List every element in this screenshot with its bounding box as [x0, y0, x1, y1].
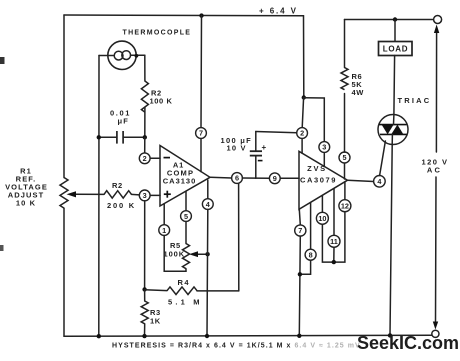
- node junction cap left: [97, 135, 101, 139]
- wire pin7 down to ground rail: [299, 236, 300, 336]
- wire node to pin2 circle: [144, 137, 146, 153]
- zero-voltage switch U2 ZVS CA3079: [299, 151, 348, 209]
- pin 1 of U1: [159, 204, 170, 236]
- wire triac gate to pin4 of U2: [380, 141, 386, 176]
- triac Q1: [378, 115, 408, 145]
- svg-text:10 K: 10 K: [16, 199, 36, 208]
- svg-text:5: 5: [184, 212, 188, 221]
- wire AC source arrow up: [435, 30, 437, 152]
- svg-text:10: 10: [318, 214, 326, 223]
- wire triac main terminal down to ground rail: [390, 144, 392, 335]
- pin 7 of U2: [295, 209, 306, 236]
- svg-text:SeekIC.com: SeekIC.com: [357, 333, 459, 353]
- node junction triac at ground rail: [388, 333, 392, 337]
- node junction cap right: [143, 135, 147, 139]
- svg-text:AC: AC: [427, 166, 442, 175]
- wire pin4 of U1 down to ground rail: [206, 210, 209, 337]
- svg-text:THERMOCOPLE: THERMOCOPLE: [123, 30, 192, 37]
- node junction R3 at ground rail: [142, 334, 146, 338]
- svg-text:3: 3: [143, 191, 147, 200]
- node junction pin11 bus: [332, 260, 336, 264]
- node junction pin7 line at ground rail: [297, 334, 301, 338]
- svg-text:7: 7: [298, 226, 302, 235]
- wire cap top to pin2 of U2: [256, 132, 297, 133]
- op-amp U1 A1 COMP CA3130: [160, 146, 210, 207]
- svg-text:9: 9: [273, 174, 277, 183]
- svg-text:R4: R4: [178, 278, 191, 287]
- svg-text:7: 7: [199, 129, 203, 138]
- pin 4 of U1: [202, 180, 213, 210]
- svg-text:1K: 1K: [150, 317, 161, 326]
- capacitor C1 0.01uF: [99, 109, 145, 144]
- node junction LOAD branch: [393, 17, 397, 21]
- pin 6 of U1 output: [210, 173, 242, 184]
- svg-text:11: 11: [330, 237, 338, 246]
- wire pin6 to pin9: [242, 177, 269, 179]
- wire A1 pin7 riser: [200, 16, 203, 128]
- node junction wiper on pin4 line: [205, 252, 209, 256]
- svg-text:R2: R2: [112, 181, 123, 190]
- svg-text:12: 12: [341, 201, 349, 210]
- svg-text:+ 6.4 V: + 6.4 V: [259, 7, 298, 16]
- svg-text:TRIAC: TRIAC: [398, 96, 432, 105]
- terminal 120V AC top: [434, 16, 442, 24]
- svg-text:μF: μF: [118, 117, 130, 126]
- wire pin11 to bus: [333, 247, 335, 262]
- scan artifact left edge: [0, 57, 5, 64]
- svg-text:1: 1: [162, 226, 166, 235]
- wire thermocouple right lead down to R2: [144, 55, 146, 81]
- node junction +6.4V branch: [302, 95, 306, 99]
- resistor R3 1K: [141, 290, 161, 336]
- wire R5 bottom to pin1 line: [164, 236, 186, 272]
- wire R5 wiper from pin4 line: [196, 253, 208, 255]
- pin 9 of U2 input: [269, 173, 299, 184]
- pin 7 of U1: [196, 128, 207, 172]
- resistor R1 potentiometer 10K: [60, 178, 68, 209]
- wire R2 bottom to node: [144, 107, 146, 137]
- pin 12 of U2: [339, 182, 351, 212]
- svg-text:CA3079: CA3079: [300, 176, 337, 185]
- svg-text:100K: 100K: [164, 250, 186, 259]
- wire pins 10,11,12 common bus: [322, 212, 345, 262]
- svg-text:2: 2: [143, 154, 147, 163]
- wire branch to pin 3 of U2: [304, 98, 325, 142]
- svg-text:5: 5: [342, 153, 346, 162]
- pin 3 of U1: [139, 190, 160, 201]
- node junction thermocouple lead at ground rail: [97, 334, 101, 338]
- wire top rail left (+6.4V rail): [64, 14, 304, 17]
- wire AC source arrow down: [435, 177, 438, 324]
- svg-text:HYSTERESIS = R3/R4 x 6.4 V = 1: HYSTERESIS = R3/R4 x 6.4 V = 1K/5.1 M x …: [112, 343, 361, 350]
- svg-text:3: 3: [322, 143, 326, 152]
- wire top rail right section: [345, 19, 434, 21]
- svg-text:100 K: 100 K: [150, 97, 173, 106]
- pin 10 of U2: [316, 195, 328, 224]
- pin 11 of U2: [328, 189, 340, 248]
- wire R1 wiper arrow: [75, 193, 104, 195]
- node junction pin8/pin7: [298, 272, 302, 276]
- wire R4 up to output node pin6: [238, 183, 240, 291]
- pin 2 of U2: [297, 128, 308, 154]
- wire riser +6.4V to ZVS pins 2,3: [303, 16, 305, 98]
- wire load to triac: [393, 56, 396, 115]
- pin 8 of U2: [305, 203, 316, 261]
- svg-text:200 K: 200 K: [107, 201, 136, 210]
- resistor R2 200K: [104, 191, 132, 198]
- capacitor C2 100uF 10V: [221, 132, 267, 179]
- thermocouple TC1: [99, 41, 145, 69]
- resistor R2 100K: [141, 81, 148, 112]
- wire left frame vertical: [63, 15, 65, 178]
- svg-text:5.1 M: 5.1 M: [168, 298, 203, 307]
- pin 5 of U1: [181, 191, 192, 221]
- terminal 120V AC bottom: [432, 330, 439, 337]
- svg-text:8: 8: [309, 250, 313, 259]
- wire bottom ground rail: [64, 335, 432, 336]
- svg-text:+: +: [262, 143, 267, 152]
- load box: [379, 20, 413, 56]
- node junction R4 branch: [142, 287, 146, 291]
- wire pin8 joins pin7 line: [300, 260, 311, 274]
- svg-text:10 V: 10 V: [227, 144, 247, 153]
- wire branch to pin 2 of U2: [302, 98, 303, 128]
- svg-text:2: 2: [300, 129, 304, 138]
- pin 5 of U2: [339, 152, 350, 179]
- pin 4 of U2 output: [348, 176, 386, 188]
- pin 2 of U1: [139, 153, 160, 164]
- resistor R5 100K potentiometer: [164, 222, 190, 269]
- node junction top rail / A1 pin7 riser: [199, 13, 203, 17]
- svg-text:LOAD: LOAD: [383, 45, 408, 54]
- resistor R4 5.1M feedback: [145, 278, 239, 307]
- wire thermocouple left lead down: [98, 56, 100, 337]
- svg-text:CA3130: CA3130: [163, 177, 197, 186]
- node junction pin4 line at ground: [205, 334, 209, 338]
- svg-text:6: 6: [235, 174, 239, 183]
- wire pin3 node down: [144, 201, 146, 290]
- resistor R6 5K 4W: [341, 20, 364, 153]
- svg-text:4W: 4W: [352, 88, 365, 97]
- wire R2 to pin3 circle: [132, 193, 140, 196]
- pin 3 of U2: [319, 142, 330, 167]
